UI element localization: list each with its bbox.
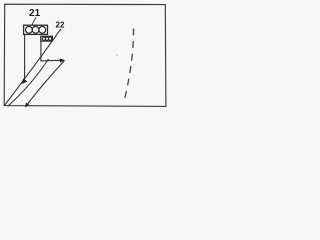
- svg-text:22: 22: [56, 20, 65, 29]
- svg-text:21: 21: [29, 8, 41, 19]
